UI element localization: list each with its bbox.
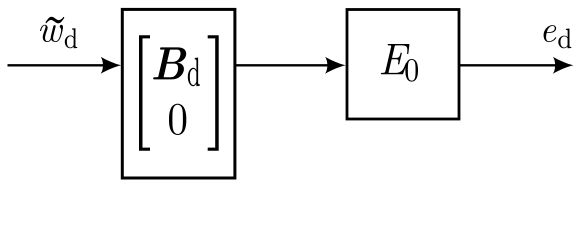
wire: input to Bd block — [8, 64, 113, 66]
wire: Bd block to E0 block — [234, 64, 337, 66]
block [Bd;0] — [122, 9, 235, 178]
right bracket — [208, 35, 219, 151]
arrowhead into E0 block — [325, 57, 346, 74]
arrowhead into Bd block — [101, 57, 122, 74]
left bracket — [139, 35, 150, 151]
matrix entry 0 — [169, 104, 186, 135]
input label w~d — [40, 17, 77, 49]
output label ed — [544, 25, 572, 48]
matrix entry Bd — [153, 47, 200, 86]
wire: E0 block to output — [459, 64, 564, 66]
block E0 — [347, 10, 459, 120]
output arrowhead — [553, 57, 574, 74]
label E0 — [381, 44, 418, 82]
